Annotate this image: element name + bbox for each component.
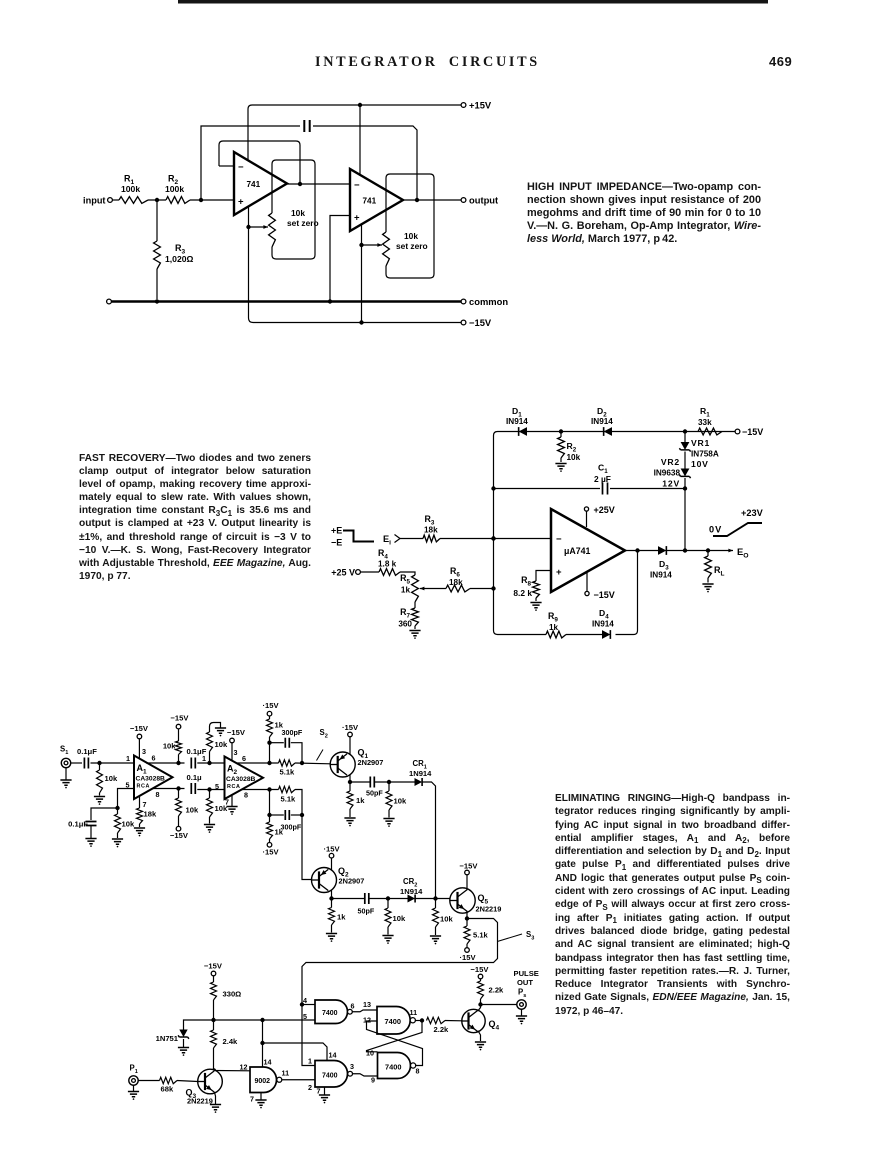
- svg-text:Q5: Q5: [478, 893, 489, 905]
- resistor 330: [213, 976, 215, 982]
- svg-text:10k: 10k: [186, 806, 199, 815]
- wire Q3 collector to 9002 pin12: [214, 1070, 250, 1072]
- svg-text:300pF: 300pF: [282, 728, 303, 737]
- ground AND 10k: [430, 936, 441, 941]
- svg-text:IN914: IN914: [591, 417, 613, 426]
- bubble gate5: [411, 1063, 416, 1068]
- svg-text:−15V: −15V: [204, 962, 223, 971]
- ground 9002: [260, 1093, 262, 1100]
- svg-text:50pF: 50pF: [366, 789, 383, 798]
- wire supply to gate2 pin14: [263, 1043, 328, 1061]
- resistor 5.1k bottom: [279, 786, 296, 792]
- wire U1 inverting input: [219, 165, 234, 167]
- wire Q3 emitter: [214, 1092, 215, 1104]
- svg-text:5.1k: 5.1k: [280, 768, 296, 777]
- svg-text:7: 7: [143, 800, 147, 809]
- wire P1 to 68k: [138, 1080, 159, 1082]
- node gate1 pin4 junction: [300, 1002, 304, 1006]
- op-amp U2 741: [350, 169, 403, 231]
- resistor A1 pin7 18k: [139, 796, 141, 808]
- svg-text:P1: P1: [130, 1064, 138, 1075]
- svg-text:1k: 1k: [337, 913, 346, 922]
- svg-text:2 µF: 2 µF: [594, 474, 611, 484]
- svg-text:S2: S2: [320, 728, 328, 739]
- svg-text:10k: 10k: [105, 774, 118, 783]
- wire A2 pin7: [231, 795, 233, 807]
- diode D3 IN914: [658, 546, 666, 555]
- svg-text:IN914: IN914: [592, 620, 614, 629]
- svg-text:RL: RL: [714, 565, 725, 577]
- capacitor 300pF bottom: [285, 810, 289, 820]
- node CR2 10k junction: [386, 896, 390, 900]
- wire to Q1 base: [295, 762, 330, 765]
- wire top rail: [494, 432, 736, 436]
- svg-text:D4: D4: [599, 608, 609, 620]
- node A1 pin5 junction: [115, 806, 119, 810]
- diode CR2 1N914: [408, 895, 416, 903]
- node A1 pin6 junction: [176, 761, 180, 765]
- svg-text:Ei: Ei: [383, 534, 391, 546]
- node A2 pin1 junction: [207, 761, 211, 765]
- terminal +25V source: [356, 570, 361, 575]
- node Q5 emitter junction: [465, 916, 469, 920]
- ground Q2 1k: [326, 934, 337, 939]
- zener VR2 IN9638 12V: [681, 469, 690, 477]
- svg-text:+: +: [354, 213, 360, 224]
- resistor AND 10k: [435, 899, 437, 909]
- text block FAST RECOVERY: [79, 452, 311, 583]
- node A2 pin5 junction: [207, 787, 211, 791]
- svg-text:1N914: 1N914: [409, 769, 432, 778]
- wire 9002 out to gate2 pin2: [282, 1079, 315, 1081]
- ground gate2: [324, 1087, 326, 1095]
- ground R8: [530, 603, 541, 608]
- resistor Q1 1k: [349, 782, 351, 791]
- diode D2 IN914: [604, 427, 612, 436]
- wire U2 V+ supply: [359, 105, 361, 176]
- text block ELIMINATING RINGING: [555, 792, 790, 1018]
- svg-text:8: 8: [244, 791, 248, 800]
- svg-text:68k: 68k: [161, 1085, 174, 1094]
- node Q3 collector junction: [212, 1068, 216, 1072]
- wire VR1 to VR2: [684, 452, 686, 469]
- node minus input junction: [491, 536, 495, 540]
- svg-text:R8: R8: [521, 575, 531, 587]
- svg-text:100k: 100k: [121, 184, 140, 194]
- node P1 input connector: [129, 1076, 138, 1085]
- svg-text:·15V: ·15V: [324, 845, 341, 854]
- capacitor bypass 0.1uF: [86, 822, 97, 826]
- node A1 pin8 junction: [176, 786, 180, 790]
- svg-text:6: 6: [242, 754, 246, 763]
- terminal output: [461, 198, 466, 203]
- svg-text:+23V: +23V: [741, 508, 764, 518]
- node U2 offset wiper junction: [359, 243, 363, 247]
- wire Q4 emitter: [478, 1031, 481, 1041]
- wire A1 pin6 out: [146, 762, 185, 764]
- svg-text:1k: 1k: [549, 623, 559, 632]
- potentiometer R5 1k: [412, 575, 419, 602]
- svg-text:7400: 7400: [322, 1072, 338, 1079]
- wire Q1 collector to 50pF: [350, 781, 370, 783]
- terminal -15V Q1: [348, 732, 353, 737]
- node 300pF bottom right: [300, 813, 304, 817]
- svg-text:10k: 10k: [393, 914, 406, 923]
- svg-text:11: 11: [282, 1069, 290, 1078]
- svg-text:10k: 10k: [122, 820, 135, 829]
- svg-text:2N2219: 2N2219: [476, 905, 502, 914]
- wire Q4 collector: [478, 1005, 481, 1012]
- svg-text:R9: R9: [548, 611, 558, 623]
- svg-text:D3: D3: [659, 559, 669, 571]
- capacitor 50pF Q2: [365, 893, 369, 904]
- zener 1N751: [184, 1020, 214, 1030]
- svg-text:14: 14: [329, 1051, 337, 1060]
- resistor R2: [166, 197, 190, 204]
- resistor 68k: [160, 1077, 178, 1083]
- resistor A2 top 10k to gnd: [209, 752, 211, 764]
- svg-text:1: 1: [126, 754, 130, 763]
- node pulse out connector Ps: [517, 1000, 526, 1009]
- resistor A1 top 10k: [176, 741, 182, 755]
- node C1 rail right junction: [683, 486, 687, 490]
- wire Q1 emitter to -15V: [349, 737, 351, 755]
- svg-text:−15V: −15V: [742, 427, 763, 437]
- wire input to R1: [113, 199, 120, 201]
- resistor Q2 1k: [331, 899, 333, 908]
- wire R4 to R5: [400, 572, 415, 575]
- node plus input common junction: [328, 299, 332, 303]
- capacitor interstage top 0.1uF: [191, 758, 195, 769]
- svg-text:IN914: IN914: [506, 417, 528, 426]
- ground P1: [133, 1085, 135, 1091]
- svg-text:·15V: ·15V: [342, 723, 359, 732]
- capacitor input 0.1uF: [84, 758, 88, 769]
- terminal -15V supply pin: [585, 591, 589, 595]
- terminal -15V A2 pin6 1k: [267, 711, 272, 716]
- potentiometer U1 offset 10k set zero: [272, 160, 276, 213]
- node -15V rail junction: [359, 320, 363, 324]
- svg-text:EO: EO: [737, 546, 749, 559]
- svg-text:50pF: 50pF: [358, 907, 375, 916]
- wire CR2 to AND junction: [415, 898, 450, 900]
- svg-text:10k: 10k: [291, 208, 305, 218]
- diode D1 IN914: [519, 427, 527, 436]
- node zener chain junction: [683, 429, 687, 433]
- wire node to capacitor C: [201, 126, 300, 200]
- wire -15V pin: [586, 573, 588, 592]
- capacitor 50pF Q1: [370, 777, 374, 788]
- svg-text:1k: 1k: [356, 796, 365, 805]
- svg-text:R3: R3: [425, 514, 435, 526]
- op-amp U1 uA741: [551, 509, 625, 592]
- svg-text:2.2k: 2.2k: [434, 1025, 450, 1034]
- wire R2 to op-amp U1 minus node: [190, 199, 234, 201]
- wire S1 to C1: [71, 762, 82, 764]
- resistor A1 bottom 10k: [178, 789, 180, 799]
- wire +25V pin: [586, 511, 588, 527]
- svg-text:10k: 10k: [215, 740, 228, 749]
- svg-text:0.1μF: 0.1μF: [68, 820, 88, 829]
- terminal -15V 1k bottom: [267, 843, 272, 848]
- svg-text:2: 2: [308, 1083, 312, 1092]
- wire left bus vertical: [494, 432, 498, 631]
- wire A1 pin8 out: [152, 788, 185, 790]
- amplifier A2 CA3028B: [225, 757, 264, 800]
- resistor input 10k: [99, 763, 101, 770]
- svg-text:12V: 12V: [662, 479, 680, 489]
- wire Q5 emitter: [466, 911, 468, 919]
- svg-text:3: 3: [350, 1062, 354, 1071]
- node bias junction: [211, 1018, 215, 1022]
- svg-text:7400: 7400: [322, 1010, 338, 1017]
- svg-text:1: 1: [308, 1057, 312, 1066]
- svg-text:741: 741: [247, 180, 261, 189]
- svg-text:1k: 1k: [401, 586, 411, 595]
- bubble gate2: [348, 1071, 353, 1076]
- wire A1 pin5: [118, 789, 135, 809]
- resistor Q4 2.2k: [480, 999, 482, 1005]
- wire pin5 node to cap: [91, 808, 118, 820]
- node AND diode junction: [433, 896, 437, 900]
- svg-text:input: input: [83, 196, 105, 206]
- wire A2 pin3: [231, 743, 233, 761]
- resistor R4 1.8k: [379, 569, 400, 576]
- gate 7400 number2: [315, 1061, 348, 1088]
- ground CR1 10k: [383, 819, 394, 824]
- wire Q4 collector to pulse out: [481, 1004, 517, 1006]
- svg-text:7: 7: [250, 1095, 254, 1104]
- wire bottom rail: [494, 631, 547, 635]
- node U2 output junction: [415, 198, 419, 202]
- svg-text:−15V: −15V: [227, 728, 246, 737]
- svg-text:R1: R1: [700, 406, 710, 418]
- svg-text:7400: 7400: [385, 1062, 401, 1071]
- node output waveform sketch: [713, 523, 762, 536]
- resistor Q5 5.1k: [466, 919, 468, 927]
- wire gate4 out: [415, 1020, 422, 1022]
- node Q1 collector junction: [348, 780, 352, 784]
- wire A1 pin3: [138, 739, 140, 759]
- zener VR1 IN758A 10V: [684, 432, 686, 443]
- resistor A2 pin5 10k: [209, 790, 211, 799]
- svg-text:2.2k: 2.2k: [489, 986, 505, 995]
- gate 7400 number4: [377, 1007, 410, 1035]
- ground 1N751: [183, 1039, 185, 1047]
- op-amp U1 741: [234, 152, 287, 215]
- wire +15V rail: [248, 105, 463, 160]
- wire Q5 collector to -15V: [466, 875, 468, 891]
- bubble 9002: [277, 1077, 282, 1082]
- svg-text:1.8 k: 1.8 k: [378, 560, 397, 569]
- svg-text:8: 8: [416, 1067, 420, 1076]
- page number 469: [769, 54, 792, 69]
- wire D3 to Eo: [667, 550, 734, 552]
- node R2 junction: [559, 429, 563, 433]
- node A2 pin6 junction: [267, 761, 271, 765]
- resistor R1: [119, 197, 148, 204]
- svg-text:CA3028B: CA3028B: [226, 776, 256, 783]
- node +15V rail junction: [358, 103, 362, 107]
- svg-text:741: 741: [363, 197, 377, 206]
- svg-text:IN758A: IN758A: [691, 450, 719, 459]
- svg-text:8: 8: [156, 790, 160, 799]
- svg-text:VR1: VR1: [691, 438, 710, 448]
- wire Q2 collector: [331, 890, 333, 899]
- terminal -15V A1 bottom: [176, 826, 181, 831]
- terminal -15V Q4: [478, 974, 483, 979]
- diode D4 IN914: [602, 630, 610, 639]
- svg-text:6: 6: [351, 1002, 355, 1011]
- svg-text:S3: S3: [526, 930, 534, 941]
- wire 300pF top path: [270, 742, 284, 744]
- node CR1 10k junction: [387, 780, 391, 784]
- svg-text:330Ω: 330Ω: [223, 990, 242, 999]
- wire VR2 to output node: [684, 478, 686, 551]
- transistor Q3 2N2219: [198, 1069, 223, 1094]
- svg-text:S1: S1: [60, 745, 68, 756]
- wire Q2 collector to 50pF: [332, 898, 365, 900]
- ground A2 pin5 10k: [204, 825, 215, 830]
- svg-text:R4: R4: [378, 548, 388, 560]
- terminal common left: [107, 299, 112, 304]
- svg-text:−15V: −15V: [170, 831, 189, 840]
- node input terminal: [108, 198, 113, 203]
- svg-text:2N2219: 2N2219: [187, 1097, 213, 1106]
- transistor Q1 2N2907: [330, 752, 355, 777]
- wire A2 pin6 out: [237, 762, 279, 764]
- wire logic supply drop: [262, 1020, 264, 1067]
- gate 7400 number5: [378, 1053, 411, 1079]
- transistor Q5 2N2219: [450, 888, 475, 913]
- svg-text:−15V: −15V: [594, 590, 615, 600]
- svg-text:0.1μF: 0.1μF: [77, 747, 97, 756]
- node latch output junction: [420, 1018, 424, 1022]
- svg-text:+15V: +15V: [469, 100, 492, 111]
- svg-text:100k: 100k: [165, 184, 184, 194]
- node C1 rail left junction: [491, 486, 495, 490]
- wire U2 offset wiper: [362, 244, 382, 246]
- wire C1 to A1 pin1: [91, 762, 135, 764]
- svg-text:−15V: −15V: [460, 862, 479, 871]
- svg-text:5.1k: 5.1k: [473, 931, 489, 940]
- node Q4 collector junction: [478, 1002, 482, 1006]
- text block HIGH INPUT IMPEDANCE: [527, 181, 761, 246]
- ground pin7: [134, 828, 145, 833]
- wire CR1 to AND junction: [422, 782, 435, 899]
- node logic supply junction: [260, 1018, 264, 1022]
- wire common rail: [112, 300, 462, 303]
- ground R7: [409, 631, 420, 636]
- bubble gate4: [410, 1018, 415, 1023]
- svg-text:10k: 10k: [394, 797, 407, 806]
- terminal common: [461, 299, 466, 304]
- resistor pin5 10k: [117, 808, 119, 814]
- capacitor C1 2uF: [603, 483, 608, 495]
- svg-text:set zero: set zero: [287, 218, 319, 228]
- svg-text:5.1k: 5.1k: [281, 795, 297, 804]
- ground pin5 10k: [112, 839, 123, 844]
- svg-text:RCA: RCA: [137, 784, 150, 790]
- wire U1 output: [625, 550, 658, 552]
- node 300pF tap top: [267, 741, 271, 745]
- terminal -15V Q2: [329, 853, 334, 858]
- amplifier A1 CA3028B: [134, 756, 173, 800]
- resistor CR2 10k: [387, 899, 389, 909]
- svg-text:CA3028B: CA3028B: [136, 776, 166, 783]
- capacitor 300pF top: [285, 738, 289, 748]
- terminal -15V A1 pin3: [137, 734, 142, 739]
- ground A2 top 10k: [215, 728, 226, 733]
- wire cap to A2 pin5: [197, 789, 224, 791]
- svg-text:IN9638: IN9638: [654, 469, 681, 478]
- node 300pF bottom left: [267, 813, 271, 817]
- ground Q1 1k: [344, 818, 355, 823]
- svg-text:18k: 18k: [424, 526, 438, 535]
- svg-text:10k: 10k: [404, 231, 418, 241]
- svg-text:2N2907: 2N2907: [339, 877, 365, 886]
- terminal -15V logic: [211, 971, 216, 976]
- node summing bus input junction: [491, 536, 495, 540]
- svg-text:7400: 7400: [385, 1017, 401, 1026]
- capacitor C feedback: [304, 120, 309, 132]
- wire 50pF to CR1: [374, 781, 414, 783]
- wire C1 rail: [494, 488, 601, 490]
- svg-text:output: output: [469, 195, 498, 206]
- wire U2 V- to -15V rail: [361, 224, 363, 323]
- resistor R3 18k: [423, 535, 440, 542]
- node A1 input junction: [97, 761, 101, 765]
- svg-text:RCA: RCA: [227, 784, 240, 790]
- svg-text:7: 7: [317, 1087, 321, 1096]
- wire latch cross A: [367, 1021, 423, 1052]
- svg-text:3: 3: [142, 747, 146, 756]
- node RL junction: [706, 548, 710, 552]
- svg-text:0V: 0V: [709, 525, 722, 535]
- terminal -15V: [461, 320, 466, 325]
- node R6 bus junction: [491, 586, 495, 590]
- ground R2: [555, 464, 566, 469]
- svg-text:9: 9: [371, 1076, 375, 1085]
- resistor 2.2k base: [427, 1017, 446, 1023]
- svg-text:−: −: [556, 534, 562, 545]
- node Q2 collector junction: [329, 896, 333, 900]
- node zener to output junction: [683, 548, 687, 552]
- ground bypass cap: [90, 826, 92, 839]
- svg-text:1,020Ω: 1,020Ω: [165, 254, 194, 264]
- wire S3 feedback: [302, 919, 498, 1066]
- svg-text:set zero: set zero: [396, 241, 428, 251]
- svg-text:·15V: ·15V: [263, 701, 280, 710]
- wire 5.1k bottom to Q2 base: [295, 790, 312, 880]
- wire top scan artifact bar: [178, 0, 768, 4]
- svg-text:C1: C1: [598, 463, 608, 475]
- svg-text:1: 1: [202, 754, 206, 763]
- svg-text:10k: 10k: [215, 804, 228, 813]
- svg-text:10V: 10V: [691, 459, 709, 469]
- svg-text:360: 360: [398, 620, 412, 629]
- svg-text:9002: 9002: [255, 1078, 271, 1085]
- node U1 offset wiper junction: [246, 225, 250, 229]
- wire gate2 out to gate5 pin9: [353, 1074, 378, 1076]
- page header title: [315, 54, 615, 71]
- node U1 output junction: [298, 182, 302, 186]
- svg-text:R6: R6: [450, 566, 460, 578]
- svg-text:8.2 k: 8.2 k: [513, 588, 532, 598]
- wire R1 to R2: [148, 199, 166, 201]
- wire U2 plus input to common: [330, 216, 350, 303]
- svg-text:IN914: IN914: [650, 571, 672, 580]
